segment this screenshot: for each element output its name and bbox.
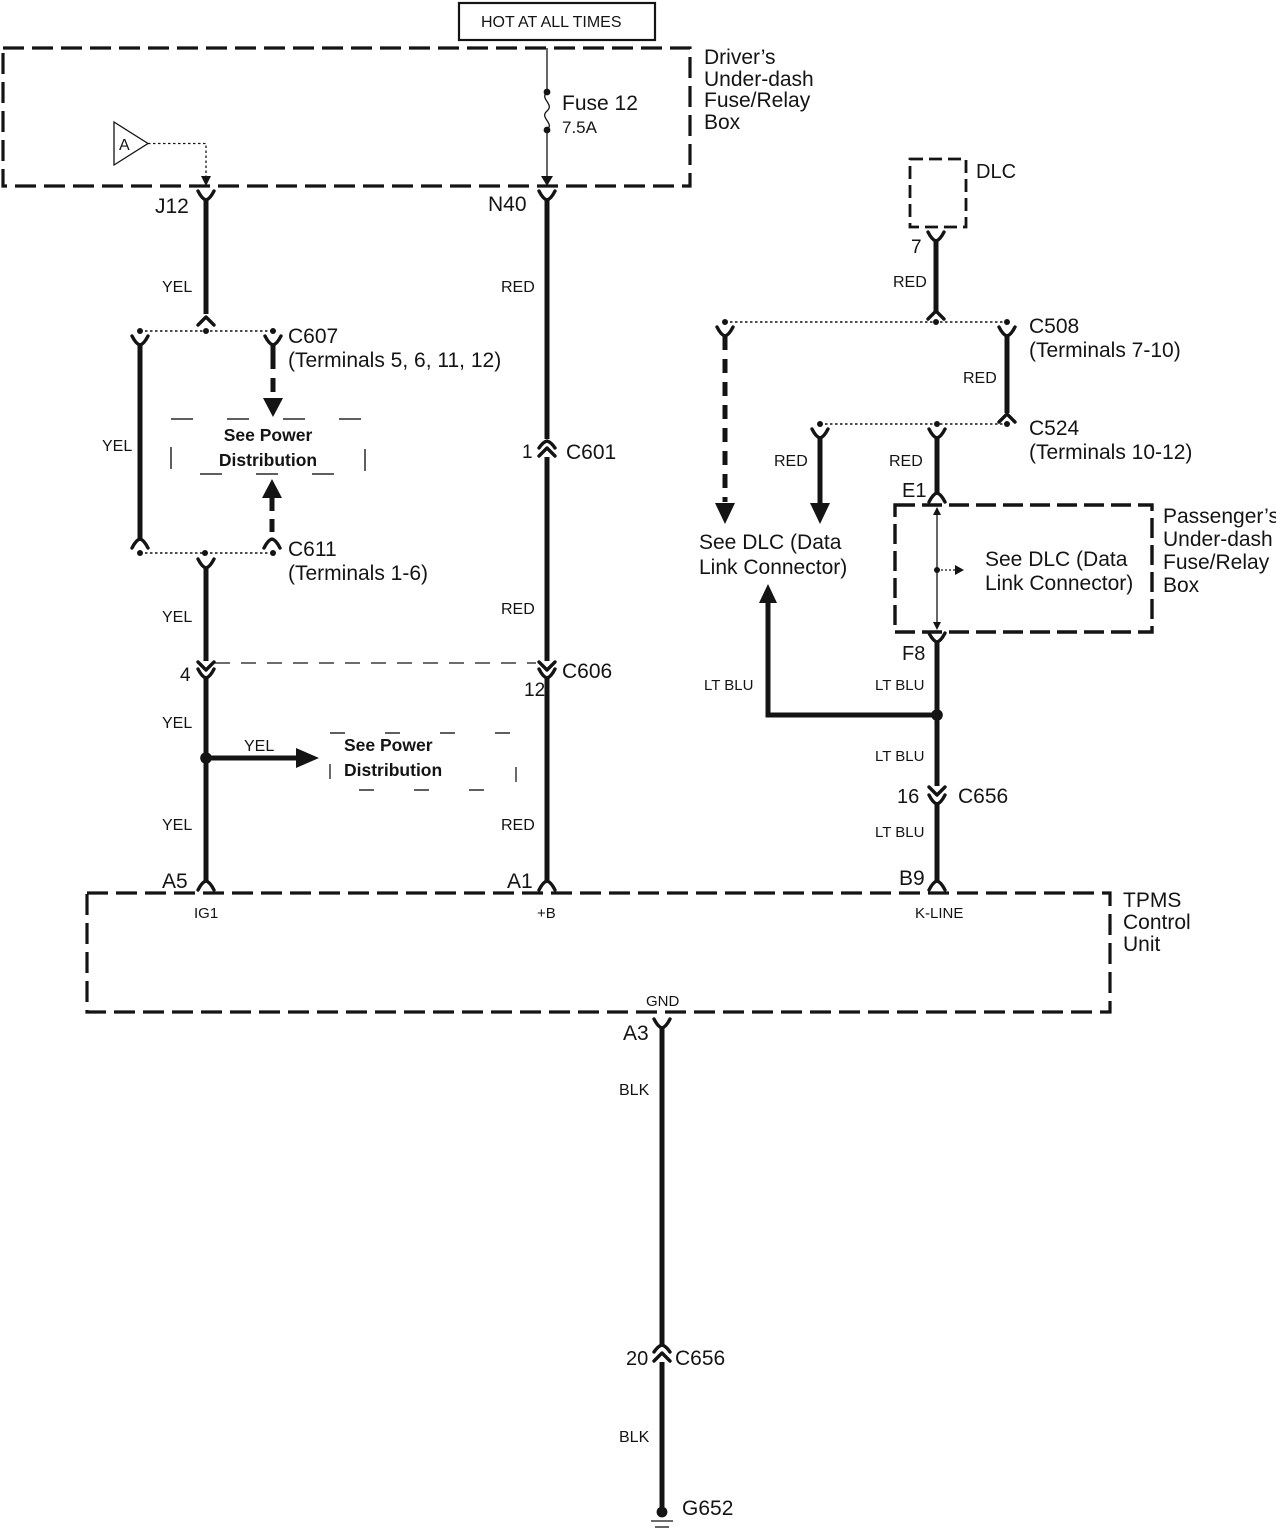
svg-text:C601: C601 bbox=[566, 441, 616, 464]
terminal F8 bbox=[902, 633, 945, 665]
svg-text:Passenger’s: Passenger’s bbox=[1163, 505, 1276, 528]
label C508 bbox=[1029, 315, 1181, 362]
svg-text:N40: N40 bbox=[488, 193, 527, 216]
wire RED arrow to See DLC bbox=[818, 438, 823, 503]
terminal C508 left branch bbox=[717, 327, 733, 336]
svg-text:Unit: Unit bbox=[1123, 933, 1161, 956]
wire BLK C656 to G652 bbox=[660, 1362, 665, 1507]
svg-text:Fuse 12: Fuse 12 bbox=[562, 92, 638, 115]
svg-text:TPMS: TPMS bbox=[1123, 889, 1181, 912]
svg-text:RED: RED bbox=[501, 601, 535, 618]
svg-text:BLK: BLK bbox=[619, 1429, 650, 1446]
label C611 bbox=[288, 538, 428, 585]
svg-text:Distribution: Distribution bbox=[344, 760, 442, 780]
wire end chevron at C524 bbox=[999, 414, 1015, 422]
wire LT BLU C656 to B9 bbox=[935, 802, 940, 882]
svg-text:GND: GND bbox=[646, 993, 680, 1010]
svg-text:B9: B9 bbox=[899, 867, 925, 890]
wire RED C606 to A1 bbox=[545, 677, 550, 882]
terminal C508 right branch bbox=[999, 327, 1015, 336]
svg-text:Distribution: Distribution bbox=[219, 450, 317, 470]
svg-text:RED: RED bbox=[774, 453, 808, 470]
terminal A5 bbox=[162, 870, 214, 893]
wire dashed C611 to arrow bbox=[270, 498, 275, 538]
box DLC bbox=[910, 159, 966, 227]
junction K-line branch bbox=[931, 709, 943, 721]
svg-text:See DLC (Data: See DLC (Data bbox=[699, 531, 842, 554]
connector C508 bbox=[722, 319, 1010, 325]
svg-text:Link Connector): Link Connector) bbox=[699, 556, 847, 579]
terminal A3 bbox=[623, 1019, 670, 1045]
svg-text:See Power: See Power bbox=[344, 735, 433, 755]
terminal E1 bbox=[902, 480, 945, 502]
connector C524 bbox=[817, 421, 1010, 427]
terminal B9 bbox=[899, 867, 945, 890]
connector C601 pin 1 bbox=[522, 441, 616, 464]
node A (triangle source) bbox=[114, 122, 148, 165]
svg-text:RED: RED bbox=[501, 817, 535, 834]
wire RED C524 to E1 bbox=[935, 438, 940, 493]
junction node on YEL wire bbox=[200, 752, 212, 764]
wire end arch at C611 right bbox=[264, 539, 280, 548]
svg-text:LT BLU: LT BLU bbox=[875, 677, 924, 694]
connector C656 pin 16 bbox=[897, 785, 1008, 808]
svg-text:C607: C607 bbox=[288, 325, 338, 348]
svg-text:YEL: YEL bbox=[244, 738, 274, 755]
svg-text:HOT AT ALL TIMES: HOT AT ALL TIMES bbox=[481, 14, 622, 31]
connector C611 bbox=[137, 550, 276, 556]
terminal C607 right branch bbox=[265, 336, 281, 345]
svg-text:LT BLU: LT BLU bbox=[704, 677, 753, 694]
connector C606 pin 4 bbox=[180, 662, 214, 686]
svg-text:Control: Control bbox=[1123, 911, 1191, 934]
svg-text:7: 7 bbox=[911, 237, 922, 258]
svg-text:IG1: IG1 bbox=[194, 905, 218, 922]
svg-text:YEL: YEL bbox=[102, 438, 132, 455]
svg-text:A1: A1 bbox=[507, 870, 533, 893]
svg-text:Under-dash: Under-dash bbox=[1163, 528, 1273, 551]
svg-text:Link Connector): Link Connector) bbox=[985, 572, 1133, 595]
ground G652 bbox=[651, 1497, 733, 1527]
svg-text:RED: RED bbox=[889, 453, 923, 470]
svg-text:(Terminals 1-6): (Terminals 1-6) bbox=[288, 562, 428, 585]
svg-text:F8: F8 bbox=[902, 643, 925, 665]
box TPMS Control Unit bbox=[87, 893, 1110, 1012]
wire RED C508 to C524 bbox=[1005, 336, 1010, 413]
wire dotted from A to J12 bbox=[148, 144, 206, 178]
svg-text:DLC: DLC bbox=[976, 161, 1016, 183]
svg-text:Fuse/Relay: Fuse/Relay bbox=[1163, 551, 1270, 574]
svg-text:LT BLU: LT BLU bbox=[875, 748, 924, 765]
svg-text:RED: RED bbox=[893, 274, 927, 291]
svg-text:C611: C611 bbox=[288, 538, 337, 561]
arrow from C611 to See Power Distribution bbox=[262, 479, 282, 498]
svg-text:(Terminals 7-10): (Terminals 7-10) bbox=[1029, 339, 1181, 362]
wire end chevron at C508 bbox=[928, 311, 944, 319]
terminal 7 of DLC bbox=[911, 232, 944, 258]
arrow into See DLC bbox=[810, 503, 830, 524]
arrow into See Power Distribution bbox=[263, 398, 283, 417]
svg-text:1: 1 bbox=[522, 442, 533, 463]
box See Power Distribution (upper) bbox=[171, 419, 365, 474]
arrow to See DLC label bbox=[759, 584, 777, 603]
svg-text:Under-dash: Under-dash bbox=[704, 68, 814, 91]
label C524 bbox=[1029, 417, 1192, 464]
svg-text:4: 4 bbox=[180, 665, 191, 686]
svg-text:YEL: YEL bbox=[162, 609, 192, 626]
wire YEL C611 to C606 bbox=[204, 568, 209, 661]
svg-text:LT BLU: LT BLU bbox=[875, 824, 924, 841]
svg-text:See Power: See Power bbox=[224, 425, 313, 445]
svg-text:E1: E1 bbox=[902, 480, 926, 502]
terminal C611 centre bbox=[198, 559, 214, 568]
connector C606 pin 12 bbox=[524, 660, 612, 701]
wire fuse to N40 bbox=[546, 130, 548, 179]
svg-text:YEL: YEL bbox=[162, 279, 192, 296]
wire end chevron at C607 bbox=[198, 317, 214, 325]
label See DLC (Data Link Connector) bbox=[699, 531, 847, 579]
box Driver's Under-dash Fuse/Relay Box bbox=[3, 48, 690, 186]
terminal C524 centre branch bbox=[929, 429, 945, 438]
label See DLC (Data Link Connector) inside box bbox=[985, 548, 1133, 595]
svg-text:(Terminals 10-12): (Terminals 10-12) bbox=[1029, 441, 1192, 464]
wire dashed C606 link line bbox=[215, 662, 536, 664]
svg-text:C656: C656 bbox=[958, 785, 1008, 808]
value label Fuse 12 7.5A bbox=[562, 92, 638, 137]
wire BLK A3 to C656 bbox=[660, 1028, 665, 1346]
wire branch to See DLC arrow bbox=[768, 601, 937, 715]
svg-text:Box: Box bbox=[1163, 574, 1200, 597]
svg-text:C606: C606 bbox=[562, 660, 612, 683]
svg-text:12: 12 bbox=[524, 680, 545, 701]
wire RED C601 to C606 bbox=[545, 457, 550, 661]
wire dashed to See DLC bbox=[723, 336, 728, 502]
connector C607 bbox=[137, 328, 276, 334]
label Passenger's Under-dash Fuse/Relay Box bbox=[1163, 505, 1276, 597]
connector C656 pin 20 bbox=[626, 1345, 725, 1370]
svg-text:C508: C508 bbox=[1029, 315, 1079, 338]
arrow into J12 bbox=[201, 176, 211, 186]
wire YEL branch arrow to See Power Distribution bbox=[206, 756, 298, 761]
terminal N40 bbox=[488, 191, 555, 216]
wire end arch at C611 left bbox=[132, 539, 148, 548]
svg-text:C524: C524 bbox=[1029, 417, 1080, 440]
svg-text:Fuse/Relay: Fuse/Relay bbox=[704, 89, 811, 112]
svg-text:20: 20 bbox=[626, 1348, 648, 1370]
svg-text:16: 16 bbox=[897, 786, 919, 808]
terminal A1 bbox=[507, 870, 555, 893]
svg-text:J12: J12 bbox=[155, 195, 189, 218]
wire LT BLU F8 to junction bbox=[935, 642, 940, 715]
svg-text:RED: RED bbox=[963, 370, 997, 387]
wire YEL left loop bbox=[138, 345, 143, 541]
svg-text:(Terminals 5, 6, 11, 12): (Terminals 5, 6, 11, 12) bbox=[288, 349, 501, 372]
svg-text:G652: G652 bbox=[682, 1497, 733, 1520]
svg-text:See DLC (Data: See DLC (Data bbox=[985, 548, 1128, 571]
svg-text:Driver’s: Driver’s bbox=[704, 46, 776, 69]
svg-text:A5: A5 bbox=[162, 870, 188, 893]
arrow into N40 bbox=[541, 176, 553, 186]
wire YEL C606 to node bbox=[204, 677, 209, 882]
svg-text:A3: A3 bbox=[623, 1022, 649, 1045]
wire LT BLU junction to C656 bbox=[935, 715, 940, 786]
svg-text:7.5A: 7.5A bbox=[562, 118, 598, 137]
svg-text:C656: C656 bbox=[675, 1347, 725, 1370]
arrow into See DLC bbox=[715, 503, 735, 524]
terminal J12 bbox=[155, 191, 214, 218]
svg-text:+B: +B bbox=[537, 905, 556, 922]
svg-text:K-LINE: K-LINE bbox=[915, 905, 963, 922]
wire RED N40 to C601 bbox=[545, 200, 550, 439]
wire from HOT bus to fuse bbox=[546, 48, 548, 92]
svg-text:YEL: YEL bbox=[162, 715, 192, 732]
label C607 bbox=[288, 325, 501, 372]
wire RED DLC to C508 bbox=[934, 241, 939, 312]
svg-text:RED: RED bbox=[501, 279, 535, 296]
svg-text:A: A bbox=[119, 137, 130, 154]
wire dashed to See Power Distribution bbox=[271, 345, 276, 369]
fuse F12 bbox=[544, 89, 551, 134]
power label HOT AT ALL TIMES bbox=[459, 3, 655, 40]
box See Power Distribution (lower) bbox=[330, 733, 516, 790]
terminal C524 left branch bbox=[812, 429, 828, 438]
terminal C607 left branch bbox=[132, 336, 148, 345]
label Driver's Under-dash Fuse/Relay Box bbox=[704, 46, 814, 134]
box Passenger's Under-dash Fuse/Relay Box bbox=[895, 505, 1152, 632]
label TPMS Control Unit bbox=[1123, 889, 1191, 956]
svg-text:BLK: BLK bbox=[619, 1082, 650, 1099]
wire YEL J12 to C607 bbox=[204, 200, 209, 314]
svg-text:Box: Box bbox=[704, 111, 741, 134]
svg-text:YEL: YEL bbox=[162, 817, 192, 834]
wire internal link E1 to F8 bbox=[933, 507, 964, 630]
